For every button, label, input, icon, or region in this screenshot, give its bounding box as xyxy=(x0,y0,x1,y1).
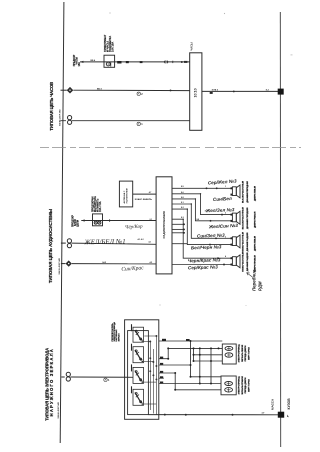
label switch text xyxy=(111,322,121,342)
wire cascade 3 xyxy=(172,204,231,238)
svg-text:SW-40-JEEP-WD: SW-40-JEEP-WD xyxy=(59,109,62,126)
ground ref symbol G3 xyxy=(104,378,110,382)
svg-text:РДМ: РДМ xyxy=(258,281,263,291)
svg-text:Передние: Передние xyxy=(252,269,257,291)
svg-text:ЗЕРКАЛ: ЗЕРКАЛ xyxy=(117,333,120,342)
svg-text:Син/Бел: Син/Бел xyxy=(213,196,232,202)
label text above B2 xyxy=(91,196,102,212)
svg-text:КОАКС.КАБЕЛЬ: КОАКС.КАБЕЛЬ xyxy=(135,198,153,201)
svg-text:8-1: 8-1 xyxy=(181,202,184,204)
ground tick xyxy=(287,415,289,418)
label section 1 code xyxy=(59,109,62,126)
label fuse feed text xyxy=(73,54,81,66)
svg-text:ЭЛЕКТРОПРИВОД: ЭЛЕКТРОПРИВОД xyxy=(239,376,241,395)
wire stub p10 xyxy=(172,228,184,230)
junctions grid A xyxy=(167,340,219,391)
wire W5 coax xyxy=(133,193,156,195)
switch contact group K1 xyxy=(132,324,144,342)
wire S1 bottom xyxy=(172,194,231,215)
svg-text:УСИЛИТЕЛЕМ: УСИЛИТЕЛЕМ xyxy=(127,188,129,203)
label switch pin blobs xyxy=(160,339,190,384)
junction blob 1 xyxy=(126,61,129,63)
tick clock feed entry xyxy=(184,61,187,63)
switch internal junctions xyxy=(149,335,157,380)
wire cascade 5 xyxy=(172,219,231,258)
radio unit U2 xyxy=(156,177,172,274)
svg-text:10А 15А: 10А 15А xyxy=(111,42,115,52)
wire stub p9 xyxy=(172,243,187,245)
wire W3 connector to clock xyxy=(72,120,190,122)
label section 2 title xyxy=(48,208,53,283)
label ВБ after fuse xyxy=(117,61,121,64)
label lighter/clock text above B1 xyxy=(103,34,115,52)
svg-text:1: 1 xyxy=(225,186,226,188)
speaker SP1 xyxy=(231,185,241,198)
page speck 5 xyxy=(246,305,247,306)
label SP1 text xyxy=(241,180,256,202)
ground node square N1 xyxy=(278,89,284,95)
motor unit M2 xyxy=(221,376,236,395)
wire cascade 4 xyxy=(172,209,231,245)
svg-text:8-8: 8-8 xyxy=(197,219,200,221)
label section 1 title xyxy=(49,82,54,131)
wire cascade 2 xyxy=(172,199,231,221)
wire W7 xyxy=(72,243,157,244)
svg-text:ЖЕЛ/БЕЛ №1: ЖЕЛ/БЕЛ №1 xyxy=(83,238,125,246)
switch contact group K4 xyxy=(132,386,144,405)
fuse box B1 xyxy=(104,55,115,67)
svg-text:SW-86-JEEP-WD: SW-86-JEEP-WD xyxy=(58,402,60,419)
page speck 2 xyxy=(224,13,225,14)
svg-text:ДИНАМИК ПЕРЕДНЕЙ: ДИНАМИК ПЕРЕДНЕЙ xyxy=(246,181,249,203)
svg-text:04-5: 04-5 xyxy=(102,261,106,264)
svg-text:2-1: 2-1 xyxy=(150,219,153,221)
svg-text:ДВЕРИ ПРАВЫЙ: ДВЕРИ ПРАВЫЙ xyxy=(253,211,256,228)
svg-text:Жел/Зел №3: Жел/Зел №3 xyxy=(205,207,235,213)
svg-text:НИЗКОЧАСТОТНЫЙ: НИЗКОЧАСТОТНЫЙ xyxy=(241,252,244,272)
svg-text:8-6: 8-6 xyxy=(181,192,184,194)
mirror switch inner box xyxy=(128,331,149,415)
svg-text:ЧАСЫ: ЧАСЫ xyxy=(190,42,194,51)
svg-text:Чёр/Кор: Чёр/Кор xyxy=(125,225,143,231)
wire W9 mirror switch feed xyxy=(70,376,133,378)
tick after clock box xyxy=(210,92,213,94)
label handwritten wire colours xyxy=(188,178,239,270)
wire W6 radio feed xyxy=(81,219,156,221)
svg-text:4-1: 4-1 xyxy=(149,240,152,243)
wire stub p7 xyxy=(172,223,184,225)
wire W1 clock feed xyxy=(80,61,190,63)
svg-text:8-8: 8-8 xyxy=(181,197,184,199)
svg-text:ПЕРЕДН ДВЕРИ: ПЕРЕДН ДВЕРИ xyxy=(245,377,247,393)
junction J5 xyxy=(232,414,234,416)
label radio left pins xyxy=(149,191,153,264)
wire W8 xyxy=(72,263,156,265)
label text left of B2 xyxy=(71,215,79,227)
wire dashed separator top xyxy=(40,147,301,149)
svg-text:8-3: 8-3 xyxy=(181,217,184,219)
svg-text:ТИПОВАЯ ЦЕПЬ АУДИОСИСТЕМЫ: ТИПОВАЯ ЦЕПЬ АУДИОСИСТЕМЫ xyxy=(48,208,53,283)
svg-text:КУЗОВ: КУЗОВ xyxy=(287,398,291,410)
label section 3 code xyxy=(58,402,60,419)
junction J3 xyxy=(164,414,166,416)
svg-text:2: 2 xyxy=(225,213,226,215)
svg-text:РАДИОПРИЕМНИК: РАДИОПРИЕМНИК xyxy=(162,211,166,239)
junction J1 xyxy=(170,89,172,91)
svg-text:НАРУЖНОГО ЗЕРКАЛА: НАРУЖНОГО ЗЕРКАЛА xyxy=(49,348,54,416)
page speck 4 xyxy=(159,304,160,305)
svg-text:10:10: 10:10 xyxy=(194,88,198,97)
wire S4 bottom xyxy=(172,264,231,266)
ground ref symbol G1 xyxy=(137,92,143,96)
label M1 text xyxy=(239,344,251,363)
fuse box B2 xyxy=(93,214,103,226)
diamond node D2 xyxy=(61,260,72,266)
switch internal bus 2 xyxy=(152,349,154,414)
label SP2 text xyxy=(241,207,256,229)
svg-text:3: 3 xyxy=(225,236,226,238)
svg-text:15А: 15А xyxy=(78,62,81,67)
label section 3 title xyxy=(45,348,54,421)
speaker wires grid xyxy=(172,188,231,264)
speaker SP4 xyxy=(231,255,241,268)
svg-text:8 НБ 5: 8 НБ 5 xyxy=(212,89,219,91)
junction dots speaker grid xyxy=(183,187,225,265)
wire left border bus xyxy=(60,2,64,443)
ground ref symbol G2 xyxy=(137,122,143,126)
junction J2 xyxy=(233,90,235,92)
svg-text:МАССА: МАССА xyxy=(270,398,274,410)
svg-text:ДВЕРИ ЛЕВЫЙ: ДВЕРИ ЛЕВЫЙ xyxy=(253,235,256,250)
diamond node D1 xyxy=(61,87,74,94)
svg-text:15А 7.5А: 15А 7.5А xyxy=(99,201,102,212)
svg-text:ЦЕПИ: ЦЕПИ xyxy=(76,220,79,227)
svg-text:ТИПОВАЯ ЦЕПЬ ЧАСОВ: ТИПОВАЯ ЦЕПЬ ЧАСОВ xyxy=(49,82,54,131)
page speck 1 xyxy=(109,12,110,13)
svg-text:ДИНАМИК ЗАДНЕЙ: ДИНАМИК ЗАДНЕЙ xyxy=(246,232,249,251)
switch internal bus 3 xyxy=(155,336,157,415)
svg-text:ДИНАМИК ПЕРЕДНЕЙ: ДИНАМИК ПЕРЕДНЕЙ xyxy=(246,207,249,229)
wire S1 top xyxy=(172,187,231,189)
svg-text:ВЫСОКОЧАСТОТНЫЙ: ВЫСОКОЧАСТОТНЫЙ xyxy=(241,180,244,202)
svg-text:4-7: 4-7 xyxy=(149,191,152,194)
switch contact group K2 xyxy=(132,344,144,363)
ground node square N2 xyxy=(278,412,284,418)
svg-text:Сер/Крас №3: Сер/Крас №3 xyxy=(188,264,218,270)
junction tick W6 xyxy=(109,219,111,221)
svg-text:4-5: 4-5 xyxy=(150,261,153,264)
svg-text:ВЕРТ ГОРИЗ: ВЕРТ ГОРИЗ xyxy=(248,379,250,392)
svg-text:ВЕРТ ГОРИЗ: ВЕРТ ГОРИЗ xyxy=(248,347,250,360)
svg-text:Бел/Черн №3: Бел/Черн №3 xyxy=(191,244,222,250)
svg-text:ДВЕРИ ЛЕВЫЙ: ДВЕРИ ЛЕВЫЙ xyxy=(253,185,256,200)
label section 2 code xyxy=(59,258,61,275)
svg-text:НИЗКОЧАСТОТНЫЙ: НИЗКОЧАСТОТНЫЙ xyxy=(241,232,244,252)
connector P3 xyxy=(61,372,70,381)
page speck 3 xyxy=(291,54,293,57)
junction blob 2 xyxy=(140,61,143,63)
svg-text:ВЫСОКОЧАСТОТНЫЙ: ВЫСОКОЧАСТОТНЫЙ xyxy=(241,207,244,229)
wire grid A xyxy=(159,341,223,390)
wire right ground bus xyxy=(279,12,281,447)
svg-text:ДВЕРИ ПРАВЫЙ: ДВЕРИ ПРАВЫЙ xyxy=(253,255,256,272)
speaker SP2 xyxy=(231,211,241,224)
inline connector marks xyxy=(164,61,183,64)
label pin numbers radio xyxy=(181,186,227,258)
label handwritten note xyxy=(252,269,263,291)
svg-text:ПЕРЕДН ДВЕРИ: ПЕРЕДН ДВЕРИ xyxy=(245,345,247,361)
label SP3 text xyxy=(241,232,256,252)
svg-text:ЗЕРКАЛА ПРАВОЙ: ЗЕРКАЛА ПРАВОЙ xyxy=(241,376,244,395)
svg-text:АНТЕННА С: АНТЕННА С xyxy=(123,190,126,203)
svg-text:ЗЕРКАЛА ЛЕВОЙ: ЗЕРКАЛА ЛЕВОЙ xyxy=(241,344,244,362)
svg-text:8-5: 8-5 xyxy=(181,186,184,188)
wire W10 ground run xyxy=(148,414,278,416)
note arrow xyxy=(247,273,253,278)
connector P1 xyxy=(61,116,72,125)
junction stub p10 xyxy=(183,228,185,230)
svg-text:ЭЛЕКТРОПРИВОД: ЭЛЕКТРОПРИВОД xyxy=(239,344,241,363)
svg-text:ДИНАМИК ЗАДНЕЙ: ДИНАМИК ЗАДНЕЙ xyxy=(246,252,249,271)
label SP4 text xyxy=(241,252,256,272)
svg-text:Син/Зел №3: Син/Зел №3 xyxy=(197,233,225,239)
label M2 text xyxy=(239,376,251,395)
speaker SP3 xyxy=(231,235,241,248)
connector P2 xyxy=(61,239,72,248)
svg-text:8-2: 8-2 xyxy=(181,207,184,209)
junction J4 xyxy=(185,414,187,416)
clock unit U1 xyxy=(190,42,202,130)
motor unit M1 xyxy=(222,344,236,364)
svg-text:4-1 4-2: 4-1 4-2 xyxy=(138,238,144,241)
wire W2 diamond to clock xyxy=(73,89,189,91)
wire stub p8 xyxy=(172,232,184,234)
svg-text:SW-55-JEEP-WD: SW-55-JEEP-WD xyxy=(59,258,61,275)
switch internal bus 1 xyxy=(149,342,151,411)
switch contact stub wires xyxy=(144,336,157,404)
switch contact group K3 xyxy=(132,364,144,383)
wire W4 clock to ground bus xyxy=(202,90,278,92)
mirror switch unit S1 outer xyxy=(125,320,159,420)
antenna unit A1 xyxy=(119,181,132,207)
